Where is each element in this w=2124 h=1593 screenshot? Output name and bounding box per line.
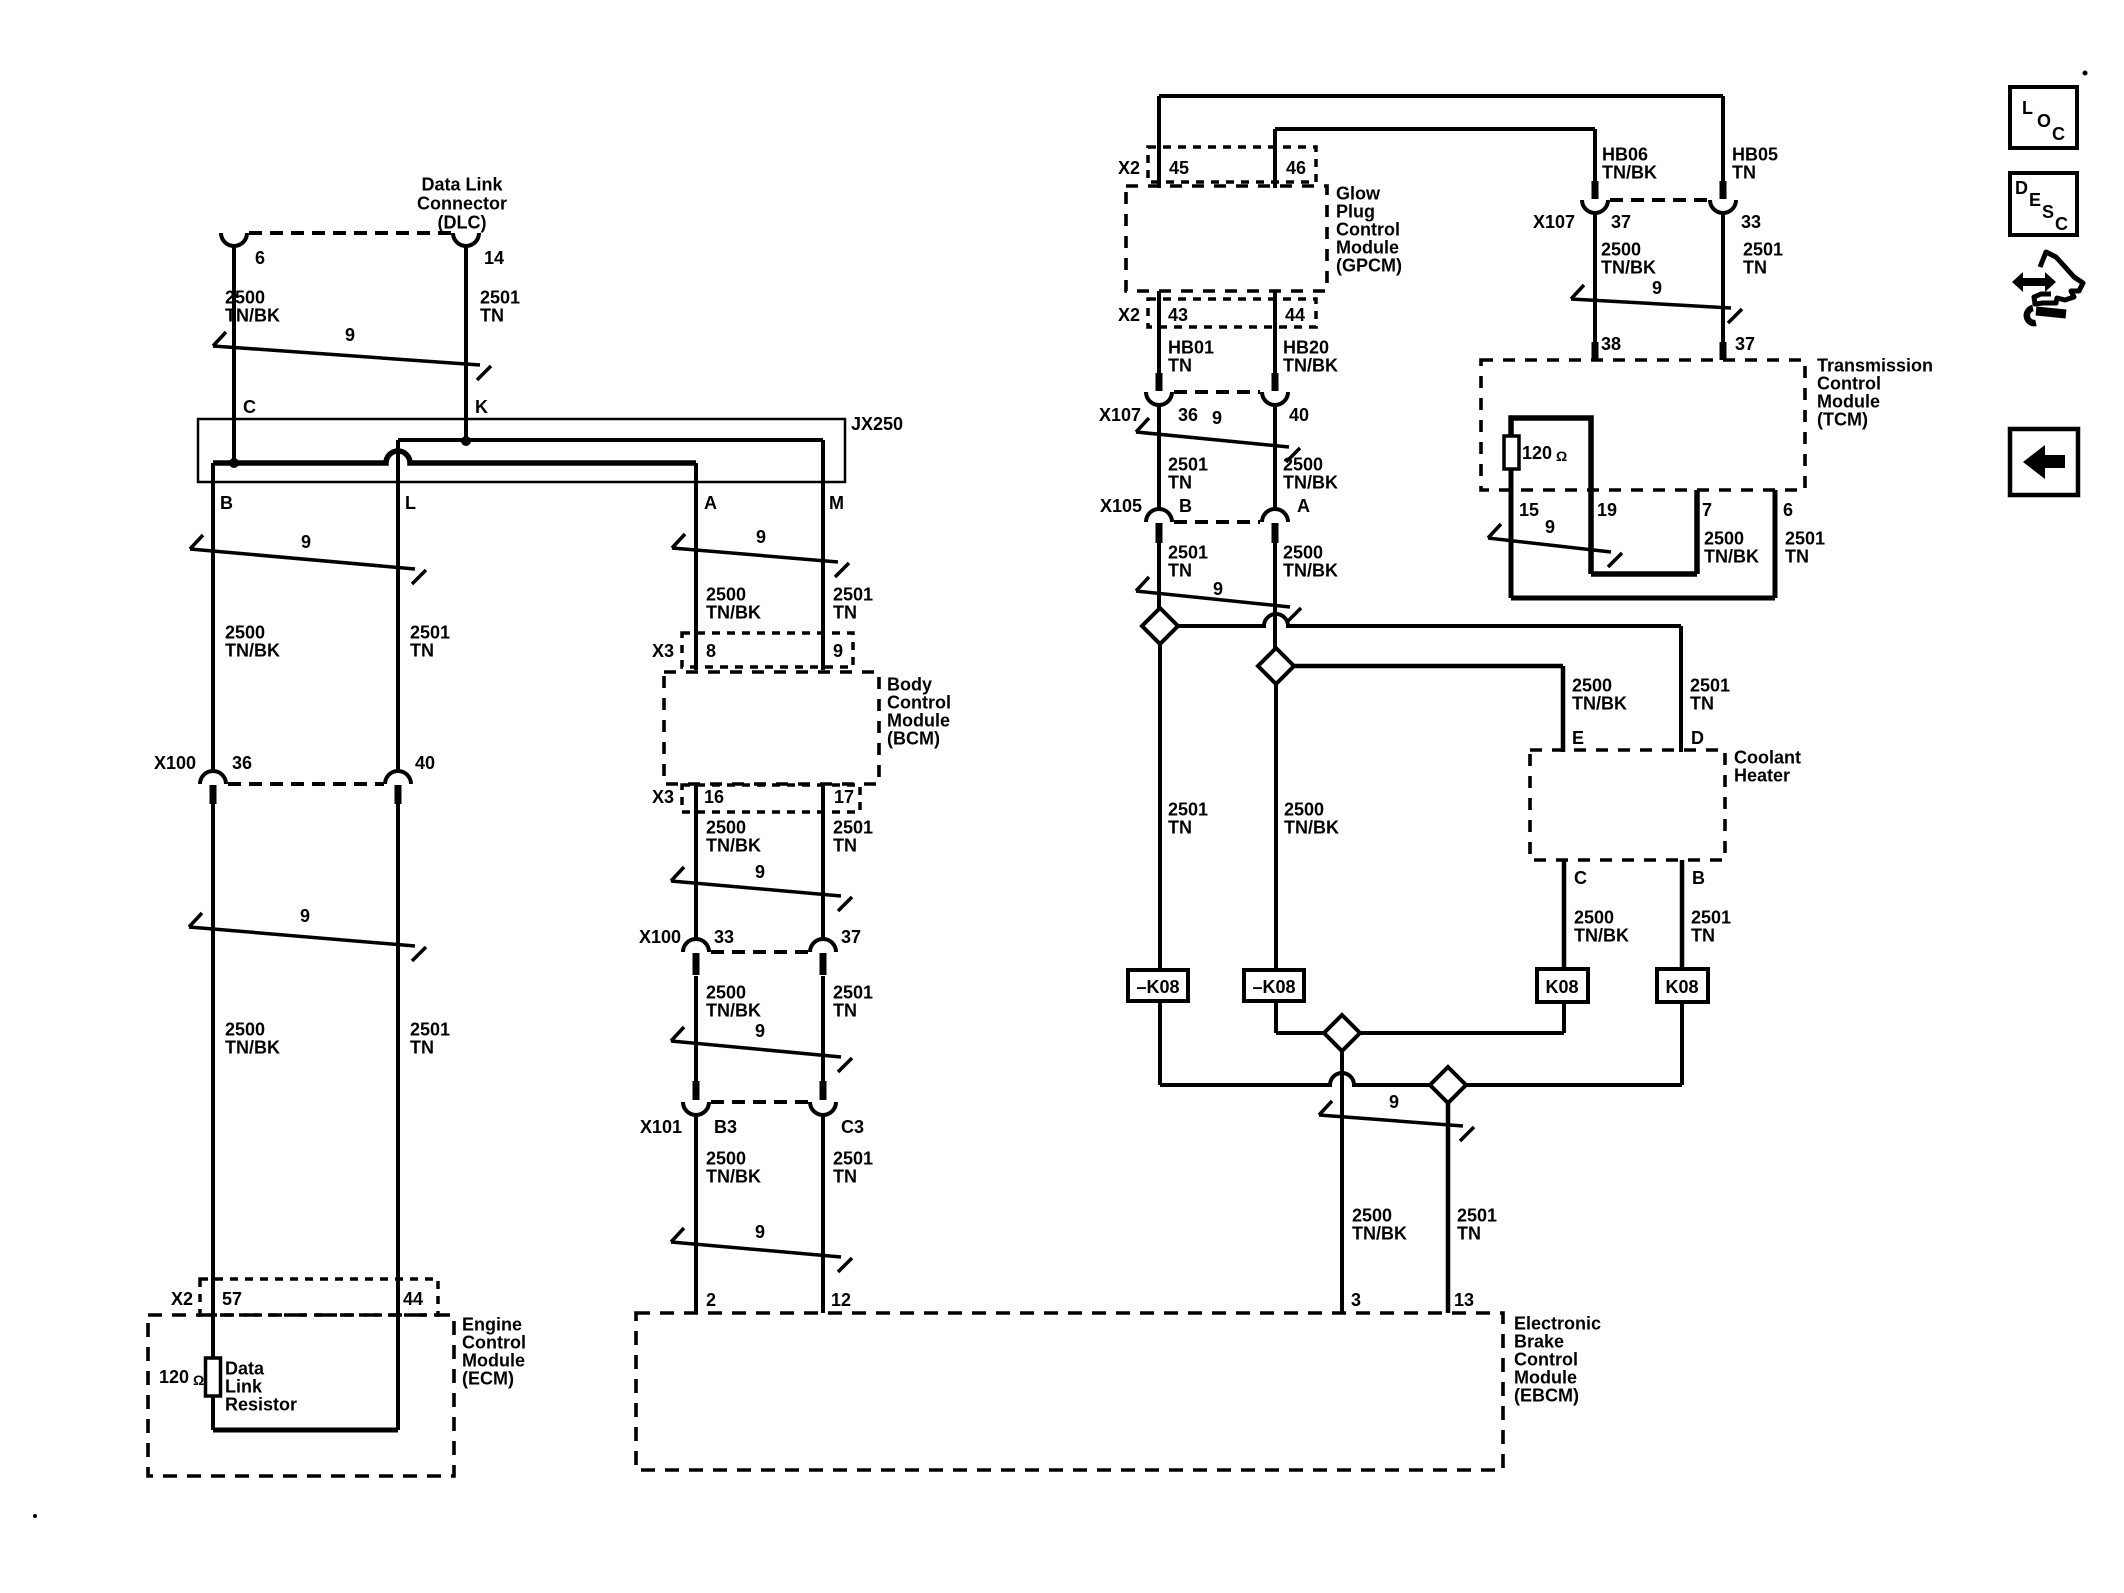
svg-text:120: 120 xyxy=(1522,443,1552,463)
svg-text:L: L xyxy=(2022,98,2033,118)
svg-text:Electronic: Electronic xyxy=(1514,1314,1601,1334)
connector X3 (BCM top) body xyxy=(682,633,853,667)
svg-text:L: L xyxy=(405,493,416,513)
connector X100-left pin stub 36 xyxy=(210,785,217,804)
svg-text:120: 120 xyxy=(159,1367,189,1387)
JX250 internal bus L-M (thin) xyxy=(398,438,823,442)
connector X101 pin stub B3 xyxy=(693,1081,700,1100)
svg-text:2501: 2501 xyxy=(1690,676,1730,696)
svg-text:X3: X3 xyxy=(652,787,674,807)
node: C joins B-A bus xyxy=(229,458,239,468)
connector X105 pin stub A xyxy=(1272,523,1279,543)
svg-text:2500: 2500 xyxy=(225,623,265,643)
icon DESC box xyxy=(2010,173,2077,235)
splice node (2501 TN) xyxy=(1142,608,1178,644)
connector X100-left pin stub 40 xyxy=(395,785,402,804)
icon LOC box xyxy=(2010,87,2077,148)
svg-text:TN/BK: TN/BK xyxy=(706,836,761,856)
svg-text:2501: 2501 xyxy=(833,983,873,1003)
connector X101 terminal C3 xyxy=(810,1102,836,1115)
svg-text:TN/BK: TN/BK xyxy=(1601,258,1656,278)
svg-text:12: 12 xyxy=(831,1290,851,1310)
wire TCM pin 19 drop xyxy=(1588,490,1594,574)
wire HB05 top run (GPCM 45 to X107 33) xyxy=(1159,94,1723,98)
svg-text:2501: 2501 xyxy=(1691,908,1731,928)
svg-text:B: B xyxy=(1179,496,1192,516)
fuse -K08 (middle) xyxy=(1244,970,1304,1001)
tiny mark bottom-left xyxy=(33,1514,37,1518)
svg-text:TN: TN xyxy=(1743,258,1767,278)
svg-text:C: C xyxy=(1574,868,1587,888)
wire TCM pin 15 through lead xyxy=(1509,469,1514,598)
connector X101 pin stub C3 xyxy=(820,1081,827,1100)
wire HB05 drop xyxy=(1721,96,1725,181)
svg-text:TN: TN xyxy=(833,836,857,856)
connector X100-mid terminal 37 xyxy=(810,939,836,952)
splice node (2501 TN lower) xyxy=(1430,1067,1466,1103)
wire -K08 mid down xyxy=(1274,1001,1278,1033)
resistor 120 ohm (Data Link Resistor) xyxy=(206,1358,221,1396)
connector X107-top terminal 37 xyxy=(1582,200,1608,213)
connector X3 (BCM bottom) body xyxy=(682,785,860,812)
svg-text:X101: X101 xyxy=(640,1117,682,1137)
wire 2501 TN (BCM 17 to X100) xyxy=(821,784,825,941)
wire resistor bottom leg xyxy=(211,1396,215,1430)
svg-text:K08: K08 xyxy=(1545,977,1578,997)
svg-text:2501: 2501 xyxy=(833,585,873,605)
connector X2 (GPCM bottom) body xyxy=(1148,299,1316,327)
svg-text:Control: Control xyxy=(1817,374,1881,394)
twisted pair symbol (B/L) xyxy=(190,549,415,569)
svg-text:17: 17 xyxy=(834,787,854,807)
wire Coolant Heater E drop xyxy=(1561,666,1566,752)
svg-text:HB01: HB01 xyxy=(1168,338,1214,358)
connector X100-mid pin stub 33 xyxy=(693,953,700,975)
svg-text:2500: 2500 xyxy=(1284,800,1324,820)
wire 2501 TN (X100 to X101) xyxy=(821,976,825,1081)
svg-text:TN: TN xyxy=(410,1038,434,1058)
svg-text:Transmission: Transmission xyxy=(1817,356,1933,376)
svg-text:9: 9 xyxy=(1652,278,1662,298)
svg-text:2500: 2500 xyxy=(1283,455,1323,475)
svg-text:B3: B3 xyxy=(714,1117,737,1137)
svg-text:9: 9 xyxy=(345,325,355,345)
svg-text:57: 57 xyxy=(222,1289,242,1309)
connector X100-left dashed body xyxy=(228,782,384,786)
twisted pair symbol (X107 to TCM) xyxy=(1571,299,1731,308)
wire C 2500 TN/BK from DLC 6 xyxy=(232,246,236,463)
svg-text:TN/BK: TN/BK xyxy=(1283,473,1338,493)
svg-text:TN/BK: TN/BK xyxy=(225,306,280,326)
svg-text:15: 15 xyxy=(1519,500,1539,520)
svg-text:Engine: Engine xyxy=(462,1315,522,1335)
fuse -K08 (left) xyxy=(1128,970,1188,1001)
svg-text:9: 9 xyxy=(300,906,310,926)
wire -K08 mid to diamond1 xyxy=(1276,1031,1324,1035)
fuse K08 (right) xyxy=(1657,969,1708,1002)
svg-text:2501: 2501 xyxy=(1785,529,1825,549)
svg-text:2501: 2501 xyxy=(1168,543,1208,563)
svg-text:Brake: Brake xyxy=(1514,1332,1564,1352)
svg-text:B: B xyxy=(1692,868,1705,888)
svg-text:2500: 2500 xyxy=(225,1020,265,1040)
wire GPCM pin 46 lead xyxy=(1273,129,1277,188)
twisted pair symbol (TCM 15/19) xyxy=(1488,538,1611,552)
svg-text:E: E xyxy=(1572,728,1584,748)
connector DLC pin 6 terminal xyxy=(221,233,247,246)
wire 2501 TN (Coolant B to K08) xyxy=(1680,860,1685,969)
wire 2501 TN (X101 to EBCM 12) xyxy=(821,1115,825,1313)
connector X2 (ECM) body xyxy=(200,1279,438,1315)
svg-text:B: B xyxy=(220,493,233,513)
svg-text:Module: Module xyxy=(887,711,950,731)
wire A 2500 TN/BK (JX250-A to BCM 8) xyxy=(694,463,698,670)
svg-text:K08: K08 xyxy=(1665,977,1698,997)
svg-text:TN/BK: TN/BK xyxy=(1602,163,1657,183)
svg-text:40: 40 xyxy=(415,753,435,773)
wire 2500 TN/BK (BCM 16 to X100) xyxy=(694,784,698,941)
svg-text:Coolant: Coolant xyxy=(1734,748,1801,768)
svg-text:D: D xyxy=(1691,728,1704,748)
wire 2500 TN/BK (X100 to ECM 57) xyxy=(211,804,215,1358)
svg-text:9: 9 xyxy=(1212,408,1222,428)
twisted pair symbol (BCM to X100) xyxy=(671,881,841,896)
svg-text:TN: TN xyxy=(1168,356,1192,376)
svg-text:(BCM): (BCM) xyxy=(887,729,940,749)
svg-text:19: 19 xyxy=(1597,500,1617,520)
svg-text:TN/BK: TN/BK xyxy=(706,1001,761,1021)
wire Coolant Heater D drop xyxy=(1679,626,1683,752)
svg-text:TN: TN xyxy=(833,1001,857,1021)
wire 2501 TN (X107 to TCM 37) xyxy=(1721,213,1725,360)
svg-text:Ω: Ω xyxy=(193,1372,204,1388)
wire 2501 TN (X105 to splice) xyxy=(1157,543,1161,608)
svg-text:TN/BK: TN/BK xyxy=(1283,561,1338,581)
svg-text:X107: X107 xyxy=(1533,212,1575,232)
connector X107-mid pin stub 36 xyxy=(1156,373,1163,391)
twisted pair symbol (to EBCM 3/13) xyxy=(1319,1115,1463,1126)
svg-text:6: 6 xyxy=(1783,500,1793,520)
svg-text:Resistor: Resistor xyxy=(225,1395,297,1415)
wire 2500 TN/BK splice to Coolant Heater E xyxy=(1294,664,1563,669)
wire TCM pin 7 riser xyxy=(1694,490,1700,574)
svg-text:X105: X105 xyxy=(1100,496,1142,516)
svg-text:Control: Control xyxy=(462,1333,526,1353)
svg-text:7: 7 xyxy=(1702,500,1712,520)
svg-text:Connector: Connector xyxy=(417,194,507,214)
connector X100-left terminal 40 xyxy=(385,771,411,784)
svg-text:O: O xyxy=(2037,111,2051,131)
svg-text:X2: X2 xyxy=(1118,305,1140,325)
twisted pair symbol (DLC wires) xyxy=(213,346,480,365)
svg-text:Module: Module xyxy=(462,1351,525,1371)
wire 2501 TN (X100 to ECM 44) xyxy=(396,804,400,1430)
connector X105 dashed body xyxy=(1174,520,1260,524)
svg-text:38: 38 xyxy=(1601,334,1621,354)
connector X105 pin stub B xyxy=(1156,523,1163,543)
svg-text:HB06: HB06 xyxy=(1602,145,1648,165)
svg-text:2: 2 xyxy=(706,1290,716,1310)
connector X107-mid terminal 36 xyxy=(1146,392,1172,405)
wire ECM internal 57-44 link xyxy=(213,1428,398,1433)
svg-text:TN/BK: TN/BK xyxy=(1572,694,1627,714)
svg-text:C3: C3 xyxy=(841,1117,864,1137)
svg-text:2501: 2501 xyxy=(1168,455,1208,475)
connector X105 terminal B xyxy=(1146,509,1172,522)
svg-text:9: 9 xyxy=(1545,517,1555,537)
svg-text:37: 37 xyxy=(1611,212,1631,232)
wire GPCM pin 45 lead xyxy=(1157,96,1161,188)
wire K08 third down xyxy=(1562,1002,1566,1033)
svg-text:TN: TN xyxy=(480,306,504,326)
twisted pair symbol (X100 to X101) xyxy=(671,1041,841,1057)
svg-text:S: S xyxy=(2042,202,2054,222)
svg-text:TN: TN xyxy=(1457,1224,1481,1244)
TCM internal link resistor wiring xyxy=(1511,418,1591,490)
svg-text:TN/BK: TN/BK xyxy=(225,641,280,661)
svg-text:43: 43 xyxy=(1168,305,1188,325)
svg-text:(TCM): (TCM) xyxy=(1817,410,1868,430)
wire 2500 TN/BK (Coolant C to K08) xyxy=(1562,860,1567,969)
svg-text:Body: Body xyxy=(887,675,932,695)
svg-text:Module: Module xyxy=(1514,1368,1577,1388)
svg-text:TN: TN xyxy=(1168,473,1192,493)
svg-text:Plug: Plug xyxy=(1336,202,1375,222)
svg-text:C: C xyxy=(243,397,256,417)
module box GPCM xyxy=(1126,186,1327,291)
svg-text:Data Link: Data Link xyxy=(421,175,503,195)
svg-text:8: 8 xyxy=(706,641,716,661)
connector DLC pin 14 terminal xyxy=(453,233,479,246)
svg-text:9: 9 xyxy=(755,862,765,882)
svg-text:TN/BK: TN/BK xyxy=(1704,547,1759,567)
svg-text:9: 9 xyxy=(1389,1092,1399,1112)
svg-text:X3: X3 xyxy=(652,641,674,661)
svg-text:X100: X100 xyxy=(639,927,681,947)
svg-text:2500: 2500 xyxy=(1572,676,1612,696)
connector X107-mid terminal 40 xyxy=(1262,392,1288,405)
svg-text:TN: TN xyxy=(1690,694,1714,714)
svg-text:2501: 2501 xyxy=(1168,800,1208,820)
svg-text:Link: Link xyxy=(225,1377,263,1397)
connector X100-mid dashed body xyxy=(711,950,808,954)
connector X100-mid terminal 33 xyxy=(683,939,709,952)
svg-text:JX250: JX250 xyxy=(851,414,903,434)
svg-text:2500: 2500 xyxy=(706,585,746,605)
svg-text:HB05: HB05 xyxy=(1732,145,1778,165)
svg-text:44: 44 xyxy=(403,1289,423,1309)
svg-text:2501: 2501 xyxy=(410,623,450,643)
svg-text:Heater: Heater xyxy=(1734,766,1790,786)
svg-text:E: E xyxy=(2029,190,2041,210)
svg-text:X2: X2 xyxy=(1118,158,1140,178)
connector X101 dashed body xyxy=(711,1100,808,1104)
svg-text:–K08: –K08 xyxy=(1136,977,1179,997)
connector X107-top pin stub 37 xyxy=(1592,181,1599,199)
svg-text:40: 40 xyxy=(1289,405,1309,425)
svg-text:HB20: HB20 xyxy=(1283,338,1329,358)
wire K08 right down xyxy=(1680,1002,1684,1085)
svg-text:44: 44 xyxy=(1285,305,1305,325)
svg-text:TN/BK: TN/BK xyxy=(706,603,761,623)
wire 2500 TN/BK (X101 to EBCM 2) xyxy=(694,1115,698,1313)
wire K 2501 TN from DLC 14 xyxy=(464,246,468,441)
svg-text:2501: 2501 xyxy=(833,1149,873,1169)
wire diamond2 to K08 right xyxy=(1466,1083,1682,1087)
connector X107-top dashed body xyxy=(1610,198,1708,202)
svg-text:33: 33 xyxy=(714,927,734,947)
svg-text:(ECM): (ECM) xyxy=(462,1369,514,1389)
svg-text:TN: TN xyxy=(1785,547,1809,567)
svg-text:9: 9 xyxy=(833,641,843,661)
wire 2501 TN (X107 to X105 B) xyxy=(1157,405,1161,509)
icon jump (double arrow with wrench) xyxy=(2012,272,2056,292)
svg-text:2500: 2500 xyxy=(706,818,746,838)
svg-text:2501: 2501 xyxy=(1457,1206,1497,1226)
TCM pin 37 stub xyxy=(1720,342,1727,360)
splice node (2500 TN/BK lower) xyxy=(1324,1015,1360,1051)
svg-text:2501: 2501 xyxy=(833,818,873,838)
wire 2500 TN/BK (X107 to X105 A) xyxy=(1273,405,1277,509)
connector X2 (GPCM top) body xyxy=(1148,147,1316,182)
wire TCM pin 6 riser xyxy=(1773,490,1778,598)
connector X107-top terminal 33 xyxy=(1710,200,1736,213)
svg-text:45: 45 xyxy=(1169,158,1189,178)
connector X105 terminal A xyxy=(1262,509,1288,522)
svg-text:Control: Control xyxy=(1514,1350,1578,1370)
svg-text:(GPCM): (GPCM) xyxy=(1336,256,1402,276)
wire M 2501 TN (JX250-M to BCM 9) xyxy=(821,440,825,670)
wire -K08 left to splice bus xyxy=(1158,1001,1162,1085)
svg-text:TN/BK: TN/BK xyxy=(1284,818,1339,838)
svg-text:33: 33 xyxy=(1741,212,1761,232)
svg-text:9: 9 xyxy=(1213,579,1223,599)
svg-text:37: 37 xyxy=(1735,334,1755,354)
svg-text:2501: 2501 xyxy=(480,288,520,308)
wire 2501 TN splice to Coolant Heater D xyxy=(1178,614,1681,626)
connector X100-left terminal 36 xyxy=(200,771,226,784)
module box Coolant Heater xyxy=(1530,750,1725,860)
connector X107-top pin stub 33 xyxy=(1720,181,1727,199)
TCM pin 38 stub xyxy=(1592,342,1599,360)
svg-text:X100: X100 xyxy=(154,753,196,773)
svg-text:2500: 2500 xyxy=(1601,240,1641,260)
svg-text:M: M xyxy=(829,493,844,513)
wire HB06 drop xyxy=(1593,129,1597,181)
wire 2500 TN/BK (splice to -K08 mid) xyxy=(1274,684,1278,970)
icon back-arrow box xyxy=(2010,429,2078,495)
svg-text:14: 14 xyxy=(484,248,504,268)
svg-text:13: 13 xyxy=(1454,1290,1474,1310)
svg-text:16: 16 xyxy=(704,787,724,807)
svg-text:TN: TN xyxy=(833,1167,857,1187)
wire 2500 TN/BK (X105 to splice) xyxy=(1273,543,1277,648)
svg-text:(DLC): (DLC) xyxy=(438,213,487,233)
svg-text:K: K xyxy=(475,397,488,417)
svg-text:2500: 2500 xyxy=(1574,908,1614,928)
wire B 2500 TN/BK (JX250-B to X100) xyxy=(211,463,215,771)
svg-text:TN: TN xyxy=(410,641,434,661)
wire 2500 TN/BK (X100 to X101) xyxy=(694,976,698,1081)
svg-text:37: 37 xyxy=(841,927,861,947)
twisted pair symbol (X105 to splices) xyxy=(1136,591,1290,607)
svg-text:2500: 2500 xyxy=(1283,543,1323,563)
svg-text:Control: Control xyxy=(887,693,951,713)
svg-text:2500: 2500 xyxy=(706,983,746,1003)
wire HB01 TN (GPCM 43 to X107 36) xyxy=(1157,291,1161,374)
wire 2501 TN (splice to EBCM 13) xyxy=(1446,1103,1451,1313)
splice node (2500 TN/BK) xyxy=(1258,648,1294,684)
twisted pair symbol (A/M) xyxy=(672,548,838,562)
module box TCM xyxy=(1481,360,1805,490)
module box BCM xyxy=(664,672,879,784)
svg-text:Module: Module xyxy=(1817,392,1880,412)
connector X107-mid pin stub 40 xyxy=(1272,373,1279,391)
svg-text:46: 46 xyxy=(1286,158,1306,178)
svg-text:D: D xyxy=(2015,178,2028,198)
tiny mark top-right xyxy=(2083,71,2088,76)
wire TCM 19 to 7 link xyxy=(1591,571,1697,577)
svg-text:Glow: Glow xyxy=(1336,184,1381,204)
svg-text:2501: 2501 xyxy=(410,1020,450,1040)
svg-text:TN/BK: TN/BK xyxy=(706,1167,761,1187)
svg-text:X2: X2 xyxy=(171,1289,193,1309)
node: K joins L-M bus xyxy=(461,436,471,446)
wire HB06 top run (GPCM 46 to X107 37) xyxy=(1275,127,1595,131)
svg-text:2500: 2500 xyxy=(225,288,265,308)
svg-text:2501: 2501 xyxy=(1743,240,1783,260)
svg-text:TN/BK: TN/BK xyxy=(1574,926,1629,946)
wire 2500 TN/BK (X107 to TCM 38) xyxy=(1593,213,1597,360)
svg-text:3: 3 xyxy=(1351,1290,1361,1310)
twisted pair symbol (to ECM) xyxy=(189,927,415,946)
connector X101 terminal B3 xyxy=(683,1102,709,1115)
svg-text:TN: TN xyxy=(1168,561,1192,581)
svg-text:9: 9 xyxy=(756,527,766,547)
twisted pair symbol (to EBCM) xyxy=(671,1242,841,1257)
JX250 internal bus B-A (thick) with bridge over L xyxy=(213,451,696,463)
fuse K08 (third) xyxy=(1537,969,1588,1002)
junction block JX250 outline xyxy=(198,419,845,482)
svg-text:6: 6 xyxy=(255,248,265,268)
svg-text:Ω: Ω xyxy=(1556,448,1567,464)
svg-text:36: 36 xyxy=(1178,405,1198,425)
svg-text:(EBCM): (EBCM) xyxy=(1514,1386,1579,1406)
connector X100-mid pin stub 37 xyxy=(820,953,827,975)
svg-text:Control: Control xyxy=(1336,220,1400,240)
connector X107-mid dashed body xyxy=(1174,390,1260,394)
wire 2501 TN (splice to -K08 left) xyxy=(1158,644,1162,970)
svg-text:2500: 2500 xyxy=(1704,529,1744,549)
svg-text:9: 9 xyxy=(755,1222,765,1242)
wire L 2501 TN (JX250-L to X100) xyxy=(396,440,400,771)
svg-text:Data: Data xyxy=(225,1359,265,1379)
svg-text:X107: X107 xyxy=(1099,405,1141,425)
wire diamond1 to K08 third xyxy=(1360,1031,1564,1035)
module box EBCM xyxy=(636,1313,1503,1470)
svg-text:TN/BK: TN/BK xyxy=(1283,356,1338,376)
wire 2500 TN/BK (splice to EBCM 3) xyxy=(1340,1051,1344,1313)
svg-text:A: A xyxy=(1297,496,1310,516)
svg-text:–K08: –K08 xyxy=(1252,977,1295,997)
twisted pair symbol (X107-X105) xyxy=(1136,432,1289,447)
svg-text:A: A xyxy=(704,493,717,513)
module box ECM xyxy=(148,1315,454,1476)
svg-text:TN: TN xyxy=(1691,926,1715,946)
svg-text:TN: TN xyxy=(833,603,857,623)
svg-text:TN/BK: TN/BK xyxy=(225,1038,280,1058)
svg-text:C: C xyxy=(2052,124,2065,144)
